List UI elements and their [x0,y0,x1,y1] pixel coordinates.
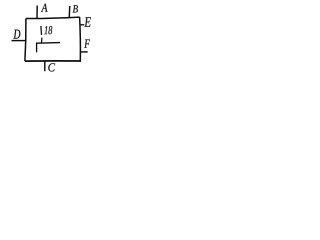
pin E wire (right upper horizontal lead) [80,24,84,26]
pin label D [13,30,20,39]
pin D wire (left horizontal lead) [12,40,26,42]
pin label F [84,40,89,48]
component body U1: right edge [79,17,82,62]
internal actuating tick crossing the horizontal stroke [41,38,43,44]
bus-width value label 18 [44,26,52,34]
internal contact symbol horizontal stroke [36,42,60,45]
pin label A [41,4,48,12]
pin C wire (bottom vertical lead) [44,61,46,71]
component body U1: top edge [26,17,80,18]
internal contact symbol vertical stroke [36,43,38,52]
pin B wire (top-right vertical lead) [68,6,71,17]
component body U1: bottom edge [25,60,80,62]
pin A wire (top-left vertical lead) [36,6,38,19]
component body U1: left edge [25,19,26,62]
pin label B [73,5,78,12]
bus-width slash stroke on pin A net [40,26,43,35]
pin label C [48,63,55,71]
pin label E [84,17,90,27]
pin F wire (right lower horizontal lead) [80,51,88,53]
